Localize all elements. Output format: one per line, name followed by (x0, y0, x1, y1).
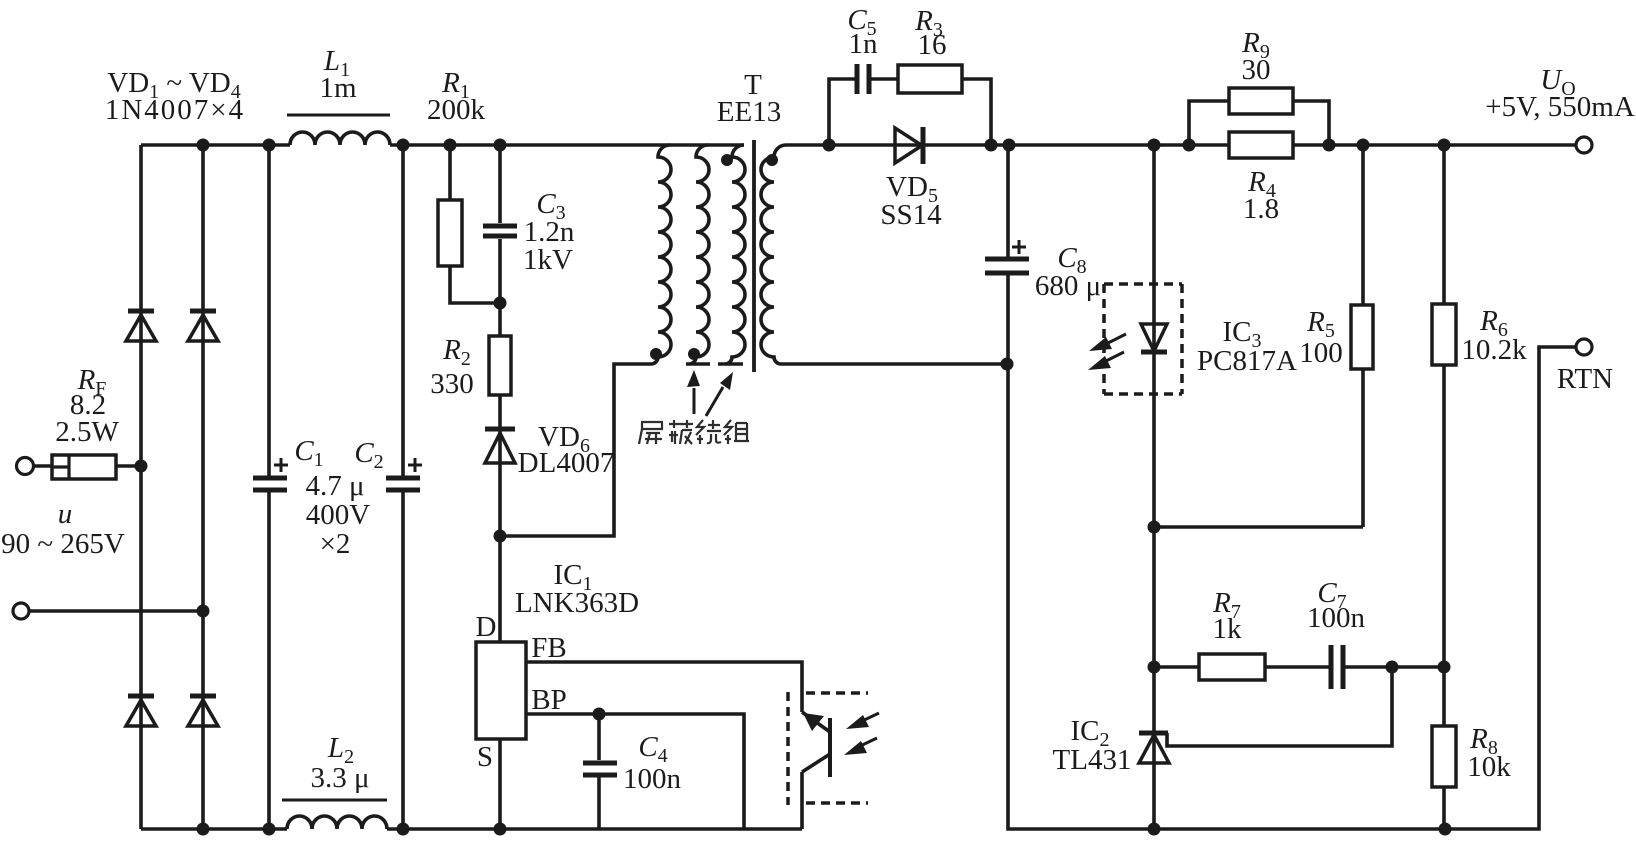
svg-text:DL4007: DL4007 (518, 447, 615, 479)
svg-text:400V: 400V (306, 499, 371, 531)
svg-text:S: S (477, 741, 493, 773)
svg-text:1k: 1k (1213, 613, 1243, 645)
svg-text:FB: FB (531, 632, 566, 664)
svg-text:100: 100 (1299, 337, 1343, 369)
svg-text:LNK363D: LNK363D (515, 587, 639, 619)
svg-text:+5V, 550mA: +5V, 550mA (1485, 91, 1635, 123)
svg-text:TL431: TL431 (1053, 744, 1132, 776)
svg-text:1m: 1m (319, 72, 357, 104)
svg-text:200k: 200k (427, 94, 486, 126)
svg-text:100n: 100n (623, 763, 682, 795)
svg-text:3.3 μ: 3.3 μ (310, 762, 369, 794)
svg-text:1kV: 1kV (523, 244, 573, 276)
svg-text:EE13: EE13 (717, 96, 781, 128)
svg-text:16: 16 (918, 29, 947, 61)
svg-text:u: u (58, 498, 73, 530)
svg-text:RTN: RTN (1557, 363, 1613, 395)
svg-text:680 μ: 680 μ (1035, 270, 1101, 302)
svg-text:10k: 10k (1467, 751, 1511, 783)
svg-text:1.8: 1.8 (1243, 193, 1279, 225)
svg-text:330: 330 (430, 368, 474, 400)
svg-text:PC817A: PC817A (1197, 345, 1297, 377)
svg-text:100n: 100n (1307, 602, 1366, 634)
svg-text:×2: ×2 (320, 528, 351, 560)
svg-text:1n: 1n (849, 28, 879, 60)
svg-text:2.5W: 2.5W (55, 416, 119, 448)
svg-text:90 ~ 265V: 90 ~ 265V (1, 528, 125, 560)
svg-text:1N4007×4: 1N4007×4 (105, 94, 245, 126)
svg-text:10.2k: 10.2k (1461, 334, 1527, 366)
svg-text:30: 30 (1242, 54, 1271, 86)
svg-text:4.7 μ: 4.7 μ (305, 470, 364, 502)
svg-text:BP: BP (531, 684, 566, 716)
svg-text:D: D (476, 611, 497, 643)
svg-text:SS14: SS14 (880, 199, 942, 231)
